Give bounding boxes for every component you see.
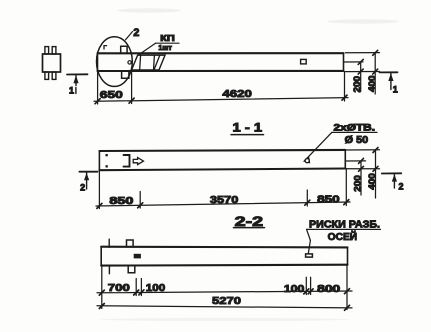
beam 1 left end cap — [97, 53, 99, 71]
view2 right bottom extension — [346, 168, 379, 170]
beam 3 top edge — [101, 246, 347, 249]
KP plate inner line b — [153, 55, 156, 70]
dim 400 vertical line — [374, 53, 376, 94]
beam 1 top edge — [98, 52, 344, 54]
title 1-1 underline — [231, 134, 264, 136]
svg-text:1: 1 — [393, 85, 398, 95]
tick v3 c — [139, 290, 144, 295]
svg-text:400: 400 — [367, 173, 378, 190]
view2 dim 400 vline — [375, 150, 377, 198]
title 2-2 underline — [234, 227, 265, 229]
svg-text:5270: 5270 — [212, 295, 241, 307]
cross-section bottom-right stub — [52, 72, 56, 79]
svg-text:2: 2 — [398, 182, 403, 192]
svg-text:Ø 50: Ø 50 — [345, 135, 369, 146]
KP plate thick bottom — [131, 69, 158, 71]
view2 dim 200 tick bottom — [359, 166, 364, 171]
svg-text:850: 850 — [317, 194, 340, 206]
riska mark right — [306, 254, 313, 257]
tick v3 d — [304, 289, 309, 294]
tick 650 right — [129, 98, 134, 103]
detail leader to label 2 — [126, 32, 133, 40]
beam 3 left end cap — [100, 247, 102, 266]
svg-text:ОСЕЙ: ОСЕЙ — [328, 230, 358, 243]
ext 700 right — [135, 279, 137, 296]
svg-text:100: 100 — [146, 282, 166, 294]
beam 1 top tab (in detail) — [121, 46, 127, 53]
beam 2 bottom edge — [99, 169, 345, 171]
svg-text:4620: 4620 — [222, 88, 252, 100]
beam 3 bottom edge — [101, 264, 347, 267]
hole leader — [305, 132, 332, 160]
cross-section top-left stub — [45, 47, 49, 54]
tick v3 a — [99, 290, 104, 295]
tick 5270 left — [99, 304, 104, 309]
tick v3 e — [308, 289, 313, 294]
ext 100 right (right side) — [310, 277, 312, 294]
svg-text:1шт: 1шт — [158, 45, 172, 52]
beam 2 right end cap — [344, 150, 346, 169]
right end mid extension line — [345, 61, 364, 63]
tick v2 c — [305, 200, 310, 205]
tick v2 d — [344, 200, 349, 205]
svg-text:2-2: 2-2 — [235, 214, 264, 229]
hole leader arrowhead — [303, 157, 310, 164]
end cross-section symbol body — [43, 54, 61, 72]
svg-text:200: 200 — [352, 76, 363, 93]
ext beam3 left long — [101, 266, 103, 309]
svg-text:2хØТВ.: 2хØТВ. — [334, 122, 376, 132]
ext 850 left — [139, 192, 141, 209]
section marker 1 left: stem tail tick — [75, 88, 77, 94]
ext 100 right (left side) — [140, 279, 142, 296]
section marker 2 right: bar — [382, 172, 402, 174]
svg-text:200: 200 — [352, 175, 363, 192]
ext beam3 right long — [346, 265, 348, 310]
dim line view3 row2 overall — [97, 306, 352, 308]
tick 650 left — [95, 99, 100, 104]
tick v2 b — [138, 203, 143, 208]
ext 100 left (right side) — [305, 277, 307, 294]
bracket mark — [124, 155, 130, 167]
svg-text:650: 650 — [100, 89, 123, 101]
ext line beam1 right end — [344, 72, 346, 101]
view2 dim 400 tick bottom — [373, 166, 378, 171]
beam 1 bottom edge — [98, 70, 344, 72]
svg-text:КП: КП — [160, 34, 175, 43]
tick v3 b — [134, 290, 139, 295]
tick 4620 right — [342, 95, 347, 100]
dim line view2 — [96, 202, 350, 206]
svg-text:1 - 1: 1 - 1 — [233, 120, 263, 134]
KP plate parallelogram — [131, 55, 165, 70]
svg-text:850: 850 — [109, 195, 133, 207]
beam 3 right end cap — [347, 247, 349, 264]
svg-text:РИСКИ РАЗБ.: РИСКИ РАЗБ. — [309, 218, 380, 230]
section marker 1 right: arrow stem — [390, 73, 392, 90]
beam 2 left end cap — [98, 151, 100, 170]
KP plate inner diagonal — [154, 55, 160, 70]
section marker 2 left: bar — [79, 171, 97, 173]
hole circle — [305, 159, 309, 163]
view2 dim 200 vline — [360, 161, 362, 195]
view2 dim 200 tick top — [359, 158, 364, 163]
beam 1 right end cap — [343, 53, 345, 71]
tick 5270 right — [345, 305, 350, 310]
label riski underline — [307, 228, 381, 230]
ext 3570 right — [306, 190, 308, 206]
tick above beam3 — [108, 239, 110, 247]
rivet dot lower — [106, 165, 108, 167]
label riski leader upper — [307, 229, 311, 240]
right end bottom extension line — [346, 71, 380, 73]
detail callout ellipse — [97, 37, 133, 87]
svg-text:700: 700 — [108, 282, 130, 294]
faint smudge bottom — [100, 318, 350, 321]
dim line view3 row1 — [97, 291, 352, 293]
rivet dot upper — [106, 154, 108, 156]
svg-text:400: 400 — [367, 76, 378, 93]
svg-text:1: 1 — [69, 86, 74, 96]
beam 3 top tab — [127, 240, 134, 247]
view2 right top extension — [346, 149, 379, 151]
dim 400 tick top — [373, 50, 378, 55]
section marker 2 right: arrowhead — [392, 174, 397, 181]
ext line KP left — [131, 70, 133, 103]
cross-section bottom-left stub — [45, 72, 49, 79]
ext beam2 right — [345, 169, 347, 206]
faint smudge top left — [117, 8, 181, 12]
section marker 2 left: arrowhead — [84, 173, 89, 181]
beam 2 top edge — [99, 150, 345, 151]
svg-text:3570: 3570 — [210, 194, 239, 206]
label KP underline — [156, 42, 180, 44]
dim 200 vertical line — [360, 62, 362, 92]
hole mark on beam 1 — [301, 59, 307, 64]
section marker 1 left: cut trace bar — [67, 73, 88, 75]
section marker 1 right: cut trace bar — [380, 71, 398, 73]
dim 400 tick bottom — [373, 69, 378, 74]
tick v2 a — [97, 203, 102, 208]
beam 3 bottom tab — [128, 266, 135, 273]
dim 200 tick top — [358, 59, 363, 64]
tick below beam3 — [108, 266, 110, 274]
view2 right mid extension — [346, 160, 365, 162]
dim line view1 — [94, 98, 348, 102]
dim 200 tick bottom — [358, 69, 363, 74]
section marker 1 right: arrowhead — [388, 73, 393, 81]
section marker 2 right: stem — [393, 174, 395, 188]
svg-text:800: 800 — [317, 283, 340, 295]
ext line beam1 left end — [97, 71, 99, 104]
view2 dim 400 tick top — [373, 148, 378, 153]
svg-text:100: 100 — [284, 283, 305, 295]
cross-section top-right stub — [52, 47, 56, 54]
KP plate inner line a — [140, 55, 141, 70]
tick v3 f — [345, 289, 350, 294]
hollow direction arrow — [133, 158, 143, 165]
section marker 2 left: stem — [86, 172, 88, 189]
riska mark left — [134, 254, 140, 258]
faint smudge top — [327, 19, 399, 23]
label 2xOTV underline — [332, 131, 377, 133]
right end top extension line — [346, 52, 380, 54]
ext beam2 left — [98, 170, 100, 208]
riska leader — [308, 240, 310, 253]
label KP leader — [138, 43, 156, 55]
beam 1 bottom tab (in detail) — [122, 71, 129, 78]
small hole dot in detail — [128, 61, 131, 64]
svg-text:2: 2 — [80, 182, 85, 192]
small corner tick in detail — [104, 46, 107, 49]
section marker 1 left: arrowhead — [73, 75, 78, 83]
section marker 1 left: arrow stem — [75, 75, 77, 86]
svg-text:2: 2 — [133, 27, 139, 39]
